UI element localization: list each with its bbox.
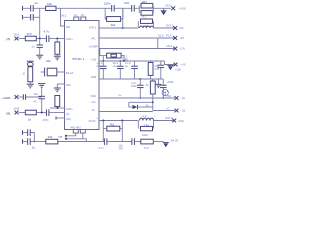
wire top rail to C5 <box>61 7 112 9</box>
capacitor C20 vertical <box>38 88 45 113</box>
svg-text:(bf): (bf) <box>180 26 184 30</box>
ground at VS rail <box>161 8 167 15</box>
ground below P1 <box>27 82 34 88</box>
wire C1 right to junction <box>34 7 46 9</box>
junction dot input B <box>41 112 43 114</box>
svg-text:100n: 100n <box>131 84 137 88</box>
svg-text:+100n: +100n <box>167 80 175 84</box>
wire VS rail right <box>153 7 171 9</box>
wire OUT1 to port <box>154 27 175 29</box>
wire input B <box>19 112 26 114</box>
capacitor C10 to mid bus <box>117 61 124 79</box>
wire PL row from IC <box>99 37 158 39</box>
resistor R10 box <box>141 126 153 130</box>
svg-text:+1u: +1u <box>113 64 118 68</box>
resistor R5 box <box>141 3 153 8</box>
wire C17 to IC <box>49 38 64 40</box>
capacitor C18 vertical <box>37 39 43 55</box>
inductor L1 left leg <box>137 21 139 28</box>
svg-text:1N.1: 1N.1 <box>60 14 67 18</box>
wire C5 right <box>115 7 132 9</box>
resistor R12 box <box>46 139 58 144</box>
ground above C20 <box>38 84 45 88</box>
resistor R4 box <box>107 17 121 22</box>
wire OUT2 from IC <box>99 120 138 122</box>
ground junction dot 1 <box>65 135 67 137</box>
svg-text:10u: 10u <box>34 92 39 96</box>
wire PL drop to CN row <box>157 38 159 49</box>
IC U1 bottom tab pin GND1 <box>73 130 78 134</box>
svg-text:VS2: VS2 <box>166 94 171 98</box>
wire C19 to vertical <box>26 96 42 98</box>
ground below R15 <box>54 56 61 60</box>
RC snubber left leg <box>138 6 140 14</box>
capacitor C3 left tick <box>22 130 24 135</box>
svg-text:- (1): - (1) <box>181 96 186 100</box>
svg-text:3/4 VS: 3/4 VS <box>171 139 179 143</box>
svg-text:+100: +100 <box>175 68 181 72</box>
resistor R7 inner mark <box>111 54 116 57</box>
svg-text:A1: A1 <box>146 83 150 87</box>
capacitor C1 left tick <box>22 6 24 11</box>
wire drop from CN row to ripple box <box>100 49 107 56</box>
svg-text:1C: 1C <box>74 13 77 17</box>
svg-text:n+.: n+. <box>118 94 122 97</box>
IC U1 body <box>65 21 100 130</box>
IC U1 top tab pin 2 <box>81 17 86 21</box>
capacitor C3 plates <box>28 129 31 136</box>
wire OUT2 to port <box>154 120 176 122</box>
diode loop left leg <box>128 102 130 107</box>
IC U1 bottom tab pin GND2 <box>80 130 85 134</box>
svg-text:1k: 1k <box>28 118 32 122</box>
resistor R7 box <box>107 53 122 58</box>
IC bottom tab wire 1 <box>66 133 76 136</box>
wire C21 to IC <box>49 112 64 114</box>
svg-text:+R: +R <box>33 100 37 104</box>
resistor R1 box <box>46 6 56 10</box>
port arrow PL <box>173 36 177 40</box>
junction dot diode loop <box>152 101 154 103</box>
junction dot bus3 a <box>139 97 141 99</box>
inductor L2 right leg <box>153 121 155 129</box>
junction dot OUT2 b <box>121 120 123 122</box>
junction dot OUT2 a <box>102 120 104 122</box>
capacitor C16 plates <box>132 138 135 145</box>
svg-text:100n: 100n <box>142 133 148 137</box>
wire input GND <box>19 96 24 98</box>
wire GN stub <box>56 117 64 119</box>
svg-text:3N): 3N) <box>66 25 70 29</box>
wire drop to IC pin IN1 <box>61 8 65 26</box>
trimmer P1 body box <box>28 67 33 82</box>
svg-text:+PL: +PL <box>180 36 185 40</box>
svg-text:+PW: +PW <box>91 75 97 79</box>
inductor L2 coil <box>140 118 154 120</box>
wire PL to port <box>158 37 175 39</box>
svg-text:- (2): - (2) <box>181 109 186 113</box>
Boucherot right leg <box>121 121 123 142</box>
svg-text:NT: NT <box>59 135 63 139</box>
svg-text:B1.AA: B1.AA <box>66 71 74 75</box>
resistor R16 vertical box <box>55 96 60 109</box>
port arrow OUT2 <box>172 119 176 123</box>
bottom bus wire <box>58 141 105 143</box>
svg-text:1N.A: 1N.A <box>14 33 20 37</box>
wire SGN row from IC to port <box>99 97 175 99</box>
svg-text:+GND: +GND <box>2 96 11 100</box>
wire CN row from IC <box>99 48 175 50</box>
svg-text:[B]: [B] <box>7 112 11 116</box>
svg-text:BTN31.1: BTN31.1 <box>73 57 85 61</box>
svg-text:+.: +. <box>97 117 100 120</box>
capacitor C5 plates <box>112 5 115 12</box>
capacitor C6 electrolytic plate <box>44 68 46 77</box>
wire IN2 row <box>50 107 65 109</box>
svg-text:+L.2: +L.2 <box>142 114 148 118</box>
svg-text:470: 470 <box>27 32 32 36</box>
logo rosette <box>162 89 168 95</box>
wire input A <box>19 38 26 40</box>
wire R7 left leg to VS bus <box>102 56 104 61</box>
wire C4 right to R12 <box>31 141 46 143</box>
svg-text:100: 100 <box>124 1 129 5</box>
svg-text:(N-: (N- <box>66 112 70 116</box>
junction dot bottom bus left <box>33 141 35 143</box>
wire C3 right <box>31 133 35 142</box>
port arrow VS2 <box>174 63 178 67</box>
junction dot bus2 a <box>139 78 141 80</box>
wire R2 to C17 <box>36 38 46 40</box>
wire R3 to C21 <box>36 112 46 114</box>
port arrow neg1 <box>175 96 179 100</box>
IC bottom tab wire 2 <box>66 133 83 139</box>
capacitor C9 to mid bus <box>100 61 107 79</box>
svg-text:1ND+: 1ND+ <box>66 107 73 111</box>
wire C3 left <box>23 132 27 134</box>
Boucherot left leg <box>102 121 104 142</box>
svg-text:10k: 10k <box>47 2 52 6</box>
resistor R11 box <box>107 126 120 131</box>
port arrow OUT1 <box>173 26 177 30</box>
wire C6 left stub <box>41 71 45 73</box>
svg-text:7k2: 7k2 <box>110 123 115 127</box>
svg-text:[A]: [A] <box>7 37 11 41</box>
wire R7 right leg <box>121 56 124 61</box>
inductor L1 coil <box>140 26 154 28</box>
ground below C18 <box>36 55 43 59</box>
svg-text:.1u: .1u <box>34 1 39 5</box>
svg-text:+VS8: +VS8 <box>179 7 186 11</box>
VS bus upper <box>99 60 165 62</box>
svg-text:N1.6: N1.6 <box>158 34 164 38</box>
resistor R3 box <box>25 110 36 115</box>
svg-text:1N.B: 1N.B <box>14 107 20 111</box>
svg-text:5VA: 5VA <box>66 83 71 87</box>
svg-text:22u: 22u <box>46 59 51 63</box>
svg-text:+C: +C <box>166 107 170 111</box>
port arrow neg2 <box>175 109 179 113</box>
capacitor C7 plates <box>132 5 135 12</box>
inductor L2 left leg <box>137 121 139 129</box>
svg-text:OUT1: OUT1 <box>89 26 96 30</box>
wire OUT1 vertical to top rail <box>122 8 124 28</box>
junction dot R15 <box>56 38 58 40</box>
wire C2 left <box>23 16 30 18</box>
ground junction dot 2 <box>65 138 67 140</box>
bottom bus wire 2 <box>107 141 132 143</box>
diode D1 <box>133 105 138 109</box>
svg-text:PL.A: PL.A <box>166 33 172 37</box>
VS bus mid <box>99 78 163 80</box>
wire C4 left <box>23 141 27 143</box>
capacitor C1 plates <box>31 5 34 12</box>
wire VL row to port <box>153 110 175 112</box>
wire C2 right to junction <box>34 16 40 18</box>
bottom bus wire 4 <box>153 141 163 143</box>
capacitor C12 to mid bus <box>158 61 165 79</box>
capacitor C6 body box <box>47 68 57 76</box>
capacitor C4 plates <box>28 138 31 145</box>
svg-text:+PL: +PL <box>91 37 96 41</box>
svg-text:1NC+: 1NC+ <box>66 37 73 41</box>
wire vertical junction to input node <box>39 8 41 38</box>
resistor R4 feedback legs <box>105 8 106 19</box>
wire VS jog to port <box>165 61 177 65</box>
resistor R9 vertical box <box>150 79 155 111</box>
svg-text:+L.1: +L.1 <box>142 15 148 19</box>
capacitor C2 left tick <box>22 15 24 20</box>
svg-text:.1u: .1u <box>31 146 36 150</box>
svg-text:4R7: 4R7 <box>142 0 148 4</box>
junction dot bus1 c <box>123 60 125 62</box>
svg-text:CN.A: CN.A <box>166 44 172 48</box>
ground stub on mid bus <box>156 79 162 88</box>
svg-text:VS.8: VS.8 <box>165 4 171 8</box>
wire OUT1 from IC <box>99 27 138 29</box>
port arrow CN <box>173 47 177 51</box>
svg-text:+CL: +CL <box>91 100 96 104</box>
junction dot IN2 <box>57 107 59 109</box>
svg-text:+CN: +CN <box>91 57 96 61</box>
wire gnd dots vertical <box>65 136 67 139</box>
resistor R6 box <box>141 19 153 23</box>
RC snubber right leg <box>152 6 154 14</box>
svg-text:-VL: -VL <box>91 108 96 112</box>
capacitor C19 plates <box>23 94 25 100</box>
svg-text:+VS: +VS <box>181 63 186 67</box>
diode loop bottom wire left <box>129 106 133 108</box>
svg-text:OUT2: OUT2 <box>89 119 96 123</box>
svg-text:+CN: +CN <box>180 47 185 51</box>
capacitor C4 left tick <box>22 139 24 144</box>
svg-text:470n: 470n <box>43 118 49 122</box>
trimmer P1 top bar <box>27 60 34 62</box>
svg-text:+COMP: +COMP <box>89 45 99 49</box>
input GND port arrow <box>15 95 19 99</box>
svg-text:2C: 2C <box>81 13 84 17</box>
capacitor C8 box <box>141 11 153 16</box>
capacitor C11 to mid bus <box>131 61 138 79</box>
svg-text:100n: 100n <box>104 2 111 6</box>
diode loop bottom wire right <box>138 106 153 108</box>
IC U1 top tab pin <box>74 17 79 21</box>
trimmer P1 knob <box>27 62 33 66</box>
resistor R11 wires <box>103 128 122 130</box>
svg-text:1.4A: 1.4A <box>144 123 150 127</box>
svg-text:2.7n: 2.7n <box>99 146 105 150</box>
svg-text:OUT.1: OUT.1 <box>166 23 174 27</box>
capacitor C21 plates <box>46 109 49 116</box>
capacitor C14 lower <box>160 79 167 98</box>
svg-text:(bf2): (bf2) <box>179 119 184 123</box>
svg-text:25V: 25V <box>119 147 124 150</box>
resistor R4 right leg <box>121 8 123 19</box>
ground at bottom right <box>163 143 169 148</box>
svg-text:47u: 47u <box>97 64 102 68</box>
resistor R8 vertical box <box>148 61 153 79</box>
ground at VS port <box>167 66 173 71</box>
svg-text:4N1 4N2: 4N1 4N2 <box>71 126 82 130</box>
capacitor C2 plates <box>31 14 34 21</box>
inductor L1 right leg <box>153 21 155 28</box>
resistor R2 box <box>25 36 36 41</box>
stub tick <box>55 117 57 120</box>
svg-text:GN): GN) <box>66 117 71 121</box>
wire VL row from IC <box>99 111 153 113</box>
wire R1 right <box>56 7 61 9</box>
svg-text:5GN: 5GN <box>91 94 96 98</box>
junction dot OUT1 <box>122 27 124 29</box>
junction dot bus1 b <box>119 60 121 62</box>
diode loop top wire <box>129 101 153 103</box>
svg-text:10k: 10k <box>48 135 53 139</box>
wire SVR pin to ground <box>57 83 64 85</box>
wire gnd to bottom bus <box>83 139 87 142</box>
port arrow VS <box>171 6 175 10</box>
svg-text:TL2: TL2 <box>144 146 149 150</box>
wire C7 right <box>135 7 140 9</box>
svg-text:4.7u: 4.7u <box>44 30 50 34</box>
svg-text:2k2: 2k2 <box>111 23 116 27</box>
wire C6 to IC <box>57 71 65 73</box>
bottom bus wire 3 <box>135 141 141 143</box>
capacitor C17 plates <box>46 35 49 42</box>
resistor R13 box <box>141 139 154 144</box>
junction dot bus3 b <box>162 97 164 99</box>
junction dot input A <box>39 38 41 40</box>
junction dot bus1 a <box>102 60 104 62</box>
capacitor C15 plates <box>104 138 107 145</box>
resistor R15 vertical <box>55 39 60 56</box>
svg-text:OUT.2: OUT.2 <box>165 116 173 120</box>
ground SVR <box>54 84 61 92</box>
capacitor C13 lower <box>137 79 144 98</box>
wire C1 left <box>23 7 30 9</box>
